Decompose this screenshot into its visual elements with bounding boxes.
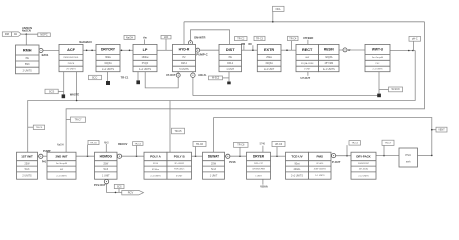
svg-text:W-SCN: W-SCN bbox=[391, 88, 399, 91]
wire U2 waste stub bbox=[63, 72, 65, 95]
svg-text:5 UNITS: 5 UNITS bbox=[179, 68, 189, 71]
pump above U5 (extract) bbox=[189, 41, 193, 45]
wire U8 bottom stub to label bbox=[307, 72, 309, 76]
svg-text:25W: 25W bbox=[211, 162, 217, 165]
svg-text:SCS: SCS bbox=[117, 186, 122, 188]
svg-text:2+1 UNITS: 2+1 UNITS bbox=[323, 68, 335, 71]
node top-line junction bbox=[272, 21, 274, 23]
wire mid line A bbox=[193, 95, 379, 97]
wire SCS tag stub bbox=[58, 91, 64, 93]
svg-text:LP: LP bbox=[143, 48, 148, 52]
svg-text:HCl: HCl bbox=[164, 35, 169, 39]
node product junction bbox=[115, 192, 117, 194]
svg-text:160kw: 160kw bbox=[142, 56, 149, 59]
node offgas tag junction bbox=[431, 129, 433, 131]
svg-text:NaOH: NaOH bbox=[126, 35, 133, 39]
node a7 bbox=[408, 50, 410, 52]
svg-text:5m-3m-pd/4: 5m-3m-pd/4 bbox=[56, 163, 68, 165]
tag VENT bbox=[436, 127, 447, 132]
node a2 bbox=[91, 50, 93, 52]
svg-text:U7FEED: U7FEED bbox=[303, 36, 313, 40]
svg-text:32Q3A-CF8M: 32Q3A-CF8M bbox=[301, 62, 314, 65]
wire U8 feed stub from label bbox=[307, 40, 309, 45]
pump after U13 bbox=[117, 154, 121, 158]
svg-text:TR-C6: TR-C6 bbox=[36, 127, 43, 129]
wire tag stub on left vertical bbox=[28, 126, 34, 128]
svg-text:2ND INIT: 2ND INIT bbox=[55, 155, 67, 159]
wire U1-U2 bbox=[39, 50, 59, 52]
svg-text:2+1 UNITS: 2+1 UNITS bbox=[291, 174, 303, 177]
svg-text:2% UNITS: 2% UNITS bbox=[66, 69, 76, 71]
wire U16-U17 bbox=[225, 155, 247, 157]
svg-text:RM: RM bbox=[5, 32, 9, 36]
svg-text:PE: PE bbox=[229, 56, 233, 59]
wire product line to flag bbox=[107, 184, 122, 193]
svg-text:5M3: 5M3 bbox=[25, 63, 30, 66]
node b2 bbox=[136, 155, 138, 157]
svg-text:NGFC: NGFC bbox=[40, 33, 47, 37]
wire stub to waste-SCN tag bbox=[379, 88, 389, 90]
unit U16 dewatering bbox=[203, 152, 225, 179]
wire tag stub b2 bbox=[136, 145, 138, 156]
wire feed line bbox=[21, 33, 37, 35]
svg-text:2 UNITS: 2 UNITS bbox=[22, 174, 32, 177]
node a4 bbox=[129, 50, 131, 52]
tag TR-C3 bbox=[254, 36, 265, 40]
svg-text:45M7 104M72: 45M7 104M72 bbox=[314, 169, 326, 171]
node a5 bbox=[252, 49, 254, 51]
svg-text:1 UNIT: 1 UNIT bbox=[255, 175, 262, 177]
wire U6-U7 bbox=[242, 49, 258, 51]
svg-text:HYD-R: HYD-R bbox=[179, 48, 190, 52]
node a8 bbox=[412, 50, 414, 52]
svg-text:TR-C6: TR-C6 bbox=[196, 143, 204, 146]
tag W-SCN bbox=[389, 87, 403, 92]
unit U18 TCE-UV bbox=[286, 152, 309, 179]
unit U13 homogenizer bbox=[95, 152, 118, 179]
unit U10 treatment bbox=[365, 44, 390, 71]
svg-text:PSU: PSU bbox=[405, 153, 411, 157]
wire U20-U21 bbox=[376, 155, 399, 157]
wire tag stub on U12 drop bbox=[66, 119, 70, 121]
unit U8 rectifier bbox=[296, 44, 319, 71]
wire U2-U3 bbox=[83, 49, 96, 51]
wire NH3 stub bbox=[105, 144, 107, 152]
svg-text:AN: AN bbox=[14, 33, 18, 36]
wire line-D drop into U16 bbox=[213, 118, 215, 153]
svg-text:WASTE: WASTE bbox=[70, 93, 79, 97]
wire U5 bottom drop to line A bbox=[192, 71, 194, 95]
svg-text:U7-OUT: U7-OUT bbox=[300, 76, 310, 80]
svg-text:32Q3A: 32Q3A bbox=[325, 56, 333, 59]
tag SCS2 bbox=[114, 184, 124, 188]
svg-text:2+1 UNITS: 2+1 UNITS bbox=[315, 175, 325, 177]
wire U3 waste stub bbox=[107, 71, 109, 81]
waste square below U4 bbox=[136, 80, 140, 84]
wire rrm stub 1 bbox=[243, 45, 245, 50]
svg-text:3m+2m-pd/4: 3m+2m-pd/4 bbox=[372, 57, 384, 59]
svg-text:POLY A: POLY A bbox=[150, 155, 162, 159]
svg-text:DRYER: DRYER bbox=[253, 155, 265, 159]
pump P1 after U1 bbox=[39, 49, 43, 53]
tag UP-C6 b5 bbox=[272, 141, 285, 146]
wire U10 out bbox=[390, 50, 415, 52]
svg-text:UP-C6: UP-C6 bbox=[275, 143, 283, 146]
pump after U16 bbox=[226, 154, 230, 158]
svg-text:25W: 25W bbox=[103, 162, 109, 165]
svg-text:VOAA: VOAA bbox=[260, 185, 268, 189]
svg-text:6 UNIT: 6 UNIT bbox=[176, 175, 183, 177]
tag HCl bbox=[161, 35, 171, 39]
svg-text:P6C: P6C bbox=[376, 63, 380, 65]
feed stream flag bbox=[2, 32, 21, 36]
tag NCL bbox=[273, 6, 285, 11]
node a6 bbox=[286, 49, 288, 51]
svg-text:2+1 UNITS: 2+1 UNITS bbox=[102, 68, 114, 71]
svg-text:Pd7habfum: Pd7habfum bbox=[174, 169, 185, 171]
node b1 bbox=[87, 155, 89, 157]
tag SCC bbox=[89, 75, 102, 79]
svg-text:25W: 25W bbox=[25, 162, 31, 165]
svg-text:TR-C2: TR-C2 bbox=[135, 143, 142, 145]
svg-text:NaSCN: NaSCN bbox=[22, 29, 31, 33]
svg-text:5m3: 5m3 bbox=[211, 168, 216, 171]
svg-text:RM: RM bbox=[241, 43, 245, 46]
svg-text:TR-C7: TR-C7 bbox=[75, 120, 82, 122]
svg-text:TR-C8: TR-C8 bbox=[237, 144, 245, 147]
tag U6 waste bbox=[209, 76, 223, 80]
node line-B junction at x=76.6 bbox=[76, 100, 78, 102]
svg-text:WWT-U: WWT-U bbox=[372, 48, 384, 52]
unit U4 LP column bbox=[133, 44, 157, 71]
svg-text:SCS: SCS bbox=[49, 89, 55, 93]
svg-text:2+1 UNITS: 2+1 UNITS bbox=[56, 175, 67, 177]
wire tag stub above U7-U8 bbox=[291, 41, 293, 51]
tag TR-C7 b7 bbox=[382, 140, 394, 145]
svg-text:5m3: 5m3 bbox=[103, 168, 108, 171]
node b3 bbox=[195, 155, 197, 157]
unit U3 dryer-crystallizer bbox=[96, 44, 120, 71]
svg-text:TR-C6: TR-C6 bbox=[90, 142, 97, 144]
svg-text:90wt: 90wt bbox=[294, 162, 299, 165]
svg-text:P#16: P#16 bbox=[229, 160, 236, 164]
tag TR-C6 b1 bbox=[88, 140, 99, 144]
svg-text:PCV-OUT: PCV-OUT bbox=[94, 183, 106, 187]
svg-text:NaOH: NaOH bbox=[57, 144, 64, 147]
wire tag stub b7 bbox=[383, 145, 385, 155]
svg-text:t/w: t/w bbox=[143, 36, 147, 39]
svg-text:2+C UNITS: 2+C UNITS bbox=[358, 175, 369, 177]
tag TR-C2 bbox=[235, 37, 248, 41]
unit U15 polymerizer-B bbox=[167, 152, 192, 179]
pump after U19 bbox=[332, 154, 336, 158]
wire tag stub b5 bbox=[276, 147, 278, 157]
svg-text:25kw: 25kw bbox=[266, 56, 272, 59]
wire U4 bottom loop to U5 bbox=[145, 71, 178, 88]
svg-text:2+1 UNITS: 2+1 UNITS bbox=[373, 69, 384, 71]
wire tag stub b3 bbox=[195, 147, 197, 157]
unit U1 feed tank bbox=[16, 45, 40, 74]
wire recycle B from U10 to U11 bbox=[28, 51, 416, 153]
wire U5-U6 bbox=[196, 49, 220, 51]
tag TR-C8 b4 bbox=[234, 142, 249, 147]
wire U6 waste stub bbox=[228, 72, 230, 82]
svg-text:swh: swh bbox=[406, 160, 411, 164]
wire t/w label stub bbox=[144, 39, 146, 44]
svg-text:32Q3A: 32Q3A bbox=[265, 62, 273, 65]
wire 5746 stub bbox=[262, 146, 264, 153]
svg-text:8T/Mue: 8T/Mue bbox=[152, 169, 160, 171]
svg-text:PEROXHDYSUL: PEROXHDYSUL bbox=[63, 57, 79, 59]
waste square below U2 bbox=[62, 94, 66, 98]
svg-text:NaOH/HCl: NaOH/HCl bbox=[79, 40, 92, 44]
wire U17 bottom stub bbox=[262, 179, 264, 184]
svg-text:ACE-FL: ACE-FL bbox=[198, 74, 207, 77]
node b7 bbox=[383, 155, 385, 157]
waste square below U3 bbox=[106, 81, 110, 85]
svg-text:46T-65LAr: 46T-65LAr bbox=[359, 168, 369, 171]
svg-text:DM-2: DM-2 bbox=[227, 62, 234, 65]
wire U10 bottom drain bbox=[378, 72, 380, 94]
wire tag stub b1 bbox=[87, 145, 89, 157]
waste square below U10 bbox=[377, 94, 381, 98]
tag TR-C2 b6 bbox=[349, 141, 361, 146]
tag NaOH bbox=[124, 35, 135, 39]
svg-text:1 UNIT: 1 UNIT bbox=[226, 68, 234, 71]
wire offgas tag stub bbox=[432, 129, 436, 131]
svg-text:DM-WTR: DM-WTR bbox=[194, 35, 205, 39]
svg-text:EXTR: EXTR bbox=[264, 48, 274, 52]
tag TR-C5 bbox=[172, 128, 185, 134]
svg-text:50KW/52M7: 50KW/52M7 bbox=[358, 163, 370, 165]
wire U15-U16 bbox=[192, 155, 203, 157]
node b4 bbox=[239, 155, 241, 157]
wire U7-U8 bbox=[281, 49, 296, 51]
svg-text:DRYCRY: DRYCRY bbox=[101, 48, 116, 52]
svg-text:NCL: NCL bbox=[276, 7, 282, 11]
wire U9-U10 bbox=[339, 49, 365, 51]
unit U9 resin column bbox=[319, 44, 340, 71]
pump below U13 bbox=[104, 179, 108, 183]
svg-text:TCE-UV: TCE-UV bbox=[291, 155, 302, 159]
svg-text:VENT: VENT bbox=[438, 128, 445, 131]
wire U12-U13 bbox=[76, 155, 95, 157]
svg-text:TR-C2: TR-C2 bbox=[352, 143, 359, 145]
svg-text:RCV: RCV bbox=[128, 191, 134, 195]
unit U6 distillation bbox=[219, 44, 242, 71]
unit U11 initiator-1 bbox=[17, 152, 38, 179]
svg-text:6P+H20: 6P+H20 bbox=[316, 163, 323, 165]
svg-text:PE: PE bbox=[26, 57, 30, 60]
svg-text:RECT: RECT bbox=[302, 48, 313, 52]
tag TR-C7 mid bbox=[71, 117, 86, 122]
svg-text:TR-C4: TR-C4 bbox=[289, 37, 297, 40]
node b6 bbox=[346, 155, 348, 157]
svg-text:TR-C2: TR-C2 bbox=[237, 37, 245, 40]
wire HCl tag stub bbox=[165, 39, 167, 50]
pump below U4 loop bbox=[176, 73, 180, 77]
svg-text:P-OUT: P-OUT bbox=[332, 160, 341, 164]
svg-text:400AL: 400AL bbox=[294, 168, 302, 171]
svg-text:2W5+C3T: 2W5+C3T bbox=[254, 163, 264, 165]
svg-text:2+1 UNIT: 2+1 UNIT bbox=[264, 68, 275, 71]
pump after U9 bbox=[343, 48, 347, 52]
svg-text:RMH: RMH bbox=[23, 48, 32, 52]
wire top recycle line y=21.8 bbox=[184, 21, 425, 23]
tag TR-C2 b2 bbox=[133, 142, 144, 146]
svg-text:PMS: PMS bbox=[317, 155, 324, 159]
unit U5 hydrogenation bbox=[173, 44, 196, 71]
unit U7 pilot bbox=[257, 44, 281, 71]
wire NCL tag drop bbox=[272, 11, 274, 21]
svg-text:3P+L9M52: 3P+L9M52 bbox=[174, 163, 185, 165]
wire feed drop into U1 bbox=[25, 34, 27, 45]
svg-text:RESIN: RESIN bbox=[324, 48, 334, 52]
svg-text:CHG86/CF8M: CHG86/CF8M bbox=[252, 169, 265, 171]
pump after U11 bbox=[39, 154, 43, 158]
svg-text:TR-C3: TR-C3 bbox=[256, 37, 264, 40]
svg-text:PUMP-C: PUMP-C bbox=[196, 53, 208, 57]
svg-text:TR-C5: TR-C5 bbox=[174, 130, 182, 133]
node a1 bbox=[86, 50, 88, 52]
svg-text:W-SC2: W-SC2 bbox=[212, 78, 220, 80]
svg-text:SCC·: SCC· bbox=[92, 75, 98, 79]
wire purified-water line y=29.8 bbox=[191, 30, 230, 45]
wire U2 second bottom drop to line B bbox=[76, 72, 78, 101]
tag SCS bbox=[45, 89, 58, 94]
svg-text:1ST INIT: 1ST INIT bbox=[21, 155, 33, 159]
svg-text:PVQF: PVQF bbox=[142, 62, 149, 65]
svg-text:DEWAT: DEWAT bbox=[208, 155, 219, 159]
svg-text:ACF: ACF bbox=[67, 48, 75, 52]
node U21 right junction bbox=[431, 155, 433, 157]
svg-text:5746: 5746 bbox=[260, 143, 266, 146]
wire offgas line D bbox=[214, 118, 432, 156]
svg-text:NH3: NH3 bbox=[104, 142, 109, 144]
tag TR-C6 left bbox=[33, 125, 44, 129]
wire pH tag stub bbox=[413, 41, 415, 50]
svg-text:2+1 UNITS: 2+1 UNITS bbox=[150, 175, 161, 177]
wire tag stub b4 bbox=[239, 147, 241, 156]
svg-text:PUMP: PUMP bbox=[43, 149, 51, 153]
wire U21 right link bbox=[418, 154, 432, 156]
wire U4-U5 bbox=[157, 49, 173, 51]
unit U14 polymerizer-A bbox=[144, 152, 167, 179]
unit U21 PSU bbox=[399, 148, 418, 167]
tag pH bbox=[409, 36, 421, 41]
svg-text:1 UNIT: 1 UNIT bbox=[210, 174, 218, 177]
svg-text:PW-PE: PW-PE bbox=[68, 63, 75, 65]
svg-text:HOMOG: HOMOG bbox=[100, 155, 113, 159]
svg-text:4+1 UNITS: 4+1 UNITS bbox=[139, 68, 151, 71]
wire tag stub b6 bbox=[346, 145, 348, 156]
svg-text:31/50: 31/50 bbox=[153, 163, 159, 165]
wire U4 waste stub bbox=[137, 71, 139, 81]
wire U6 waste tag link bbox=[223, 77, 230, 79]
svg-text:32Q3A: 32Q3A bbox=[104, 62, 112, 65]
svg-text:RC: RC bbox=[248, 43, 252, 46]
svg-text:DIST: DIST bbox=[226, 48, 235, 52]
svg-text:P#1: P#1 bbox=[42, 160, 47, 163]
pump below U5 bbox=[191, 73, 195, 77]
svg-text:1 UNIT: 1 UNIT bbox=[102, 174, 110, 177]
svg-text:E#01: E#01 bbox=[42, 53, 49, 57]
svg-text:POLY B: POLY B bbox=[174, 155, 186, 159]
svg-text:1 UNIT: 1 UNIT bbox=[304, 69, 311, 71]
wire U13 bottom drop bbox=[106, 178, 108, 180]
svg-text:TR-C7: TR-C7 bbox=[385, 143, 392, 145]
svg-text:RECOV: RECOV bbox=[118, 142, 127, 146]
wire U3-U4 bbox=[120, 49, 133, 51]
wire U17-U18 bbox=[271, 155, 286, 157]
svg-text:pH-C: pH-C bbox=[412, 38, 418, 41]
unit U17 dryer bbox=[247, 152, 271, 179]
node a3 bbox=[121, 50, 123, 52]
svg-text:6W: 6W bbox=[60, 169, 63, 171]
wire right outer vertical to mid line C bbox=[66, 22, 424, 152]
unit U19 PMS bbox=[309, 152, 332, 179]
wire U19-U20 bbox=[331, 155, 351, 157]
pump after U5 bbox=[196, 48, 200, 52]
wire SCS2 tag stub bbox=[118, 189, 120, 193]
node b5 bbox=[276, 155, 278, 157]
node feed junction bbox=[26, 33, 28, 35]
svg-text:90kw: 90kw bbox=[105, 56, 111, 59]
waste square below U6 bbox=[227, 82, 231, 85]
tag TR-C4 bbox=[288, 36, 299, 40]
tag TR-C6 b3 bbox=[193, 141, 206, 146]
wire U11-U12 bbox=[38, 155, 48, 157]
unit U20 dry-grind-pack bbox=[351, 152, 376, 179]
svg-text:DM-2: DM-2 bbox=[181, 62, 188, 65]
tag NGFC bbox=[38, 33, 51, 37]
svg-text:U7-OUT: U7-OUT bbox=[166, 73, 176, 77]
wire drop from top line into U5 top bbox=[183, 22, 185, 45]
svg-text:4kW: 4kW bbox=[305, 57, 309, 59]
svg-text:5m3: 5m3 bbox=[25, 168, 30, 171]
svg-text:DRY-PACK: DRY-PACK bbox=[356, 155, 370, 159]
unit U2 ACF reactor bbox=[59, 44, 83, 71]
svg-text:TR-C1: TR-C1 bbox=[121, 75, 129, 79]
wire U13-U14 bbox=[117, 155, 144, 157]
wire rrm stub 2 bbox=[252, 45, 254, 50]
svg-text:45°7&M: 45°7&M bbox=[325, 62, 334, 65]
product stream flag RCV bbox=[122, 190, 144, 195]
svg-text:2 UNITS: 2 UNITS bbox=[23, 69, 33, 72]
unit U12 initiator-2 bbox=[47, 152, 76, 179]
wire line-B drop into U15 bbox=[169, 101, 171, 153]
